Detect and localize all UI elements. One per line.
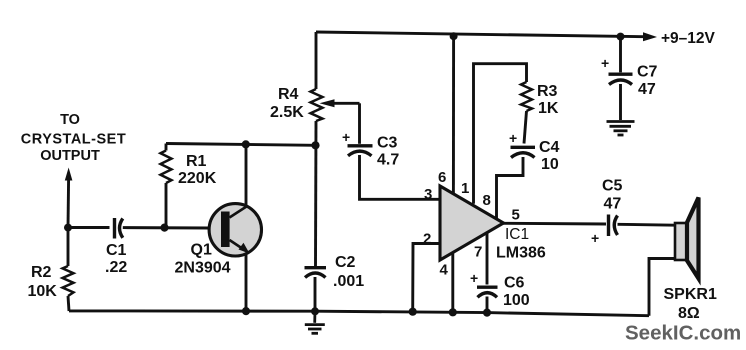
svg-text:7: 7 — [474, 244, 482, 261]
svg-text:+9–12V: +9–12V — [661, 30, 716, 47]
svg-text:5: 5 — [512, 207, 520, 224]
svg-text:4: 4 — [440, 262, 449, 279]
resistor R2 — [63, 228, 74, 312]
svg-text:+: + — [591, 230, 599, 246]
wire pin7 to C6 — [486, 233, 489, 285]
node junction C2/rail — [311, 307, 319, 315]
svg-text:10K: 10K — [28, 283, 58, 300]
resistor R3 — [521, 82, 532, 111]
wire input vertical — [67, 178, 70, 228]
svg-text:TO: TO — [60, 112, 80, 128]
capacitor C6 — [477, 287, 498, 297]
svg-text:R2: R2 — [31, 264, 52, 281]
svg-text:R1: R1 — [186, 153, 207, 170]
capacitor C7 — [609, 74, 633, 84]
wire left riser from rail to R4 — [315, 32, 318, 89]
wire R3 to C4 — [524, 111, 527, 144]
label SPKR1 value — [664, 286, 717, 322]
svg-text:C3: C3 — [377, 135, 398, 152]
label C3 value — [342, 129, 399, 169]
wire C2 to rail — [314, 277, 317, 311]
speaker SPKR1 — [649, 198, 699, 316]
node junction emitter/rail — [242, 307, 250, 315]
capacitor C1 — [115, 218, 123, 239]
label C1 value — [105, 242, 127, 276]
svg-text:10: 10 — [541, 156, 559, 173]
capacitor C5 — [609, 215, 618, 237]
ground under C2 — [305, 311, 325, 333]
wire pin1 riser and loop top — [474, 64, 527, 204]
potentiometer wiper arrow R4 — [320, 99, 360, 107]
svg-text:100: 100 — [503, 292, 530, 309]
svg-text:3: 3 — [424, 186, 432, 203]
label R3 value — [537, 83, 559, 117]
label C2 value — [333, 254, 364, 290]
label C6 value — [470, 270, 530, 309]
svg-text:8: 8 — [483, 192, 491, 209]
ground under C7 — [607, 122, 635, 136]
wire top supply rail — [316, 32, 644, 37]
label Q1 value — [175, 242, 231, 277]
svg-text:+: + — [342, 129, 350, 145]
svg-text:2N3904: 2N3904 — [175, 260, 231, 277]
svg-text:IC1: IC1 — [505, 226, 529, 243]
label IC1 LM386 — [496, 226, 546, 262]
capacitor C4 — [511, 147, 536, 157]
svg-text:2: 2 — [423, 231, 431, 248]
op-amp U1 triangle — [440, 186, 504, 260]
wire C7 to ground — [619, 84, 622, 120]
wire C3 to pin3 — [360, 155, 441, 199]
svg-text:C6: C6 — [504, 275, 525, 292]
wire output pin5 — [503, 222, 606, 226]
wire collector vertical — [245, 144, 248, 206]
capacitor C2 — [305, 268, 327, 278]
svg-text:+: + — [509, 130, 517, 146]
svg-text:SeekIC.com: SeekIC.com — [625, 322, 741, 345]
svg-text:2.5K: 2.5K — [270, 104, 304, 121]
label R4 value — [270, 86, 304, 121]
wire C4 to pin8 — [497, 157, 524, 218]
svg-text:C1: C1 — [106, 242, 127, 259]
svg-text:C4: C4 — [539, 139, 560, 156]
node junction R4/C2/collector-wire — [311, 141, 319, 149]
wire C6 to rail — [486, 297, 489, 313]
wire R4 bottom to C2 — [314, 121, 317, 266]
svg-text:C2: C2 — [335, 254, 356, 271]
wire C7 riser — [619, 37, 622, 73]
svg-text:R3: R3 — [537, 83, 558, 100]
wire emitter vertical — [245, 254, 248, 312]
svg-text:+: + — [470, 270, 478, 286]
label C5 value — [591, 178, 623, 247]
svg-text:LM386: LM386 — [496, 245, 546, 262]
svg-text:1K: 1K — [538, 100, 559, 117]
svg-text:.22: .22 — [105, 259, 127, 276]
svg-text:8Ω: 8Ω — [678, 305, 700, 322]
resistor R4 — [311, 89, 323, 121]
node input arrow — [65, 168, 73, 181]
wire pin6 riser — [452, 36, 455, 194]
node junction rail/pin6 — [450, 32, 458, 40]
label input text — [21, 112, 126, 164]
wire C5 to speaker — [618, 223, 676, 227]
node supply arrow — [643, 32, 657, 41]
wire C1 to base — [123, 226, 209, 229]
svg-text:.001: .001 — [333, 273, 364, 290]
svg-text:47: 47 — [604, 196, 622, 213]
capacitor C3 — [348, 146, 373, 156]
svg-text:R4: R4 — [278, 86, 299, 103]
resistor R1 — [161, 144, 172, 228]
node junction pin4/rail — [449, 308, 457, 316]
svg-text:Q1: Q1 — [191, 242, 212, 259]
transistor Q1 — [209, 204, 261, 256]
svg-text:C7: C7 — [637, 64, 658, 81]
node junction pin2/rail — [409, 308, 417, 316]
svg-text:C5: C5 — [602, 178, 623, 195]
svg-text:CRYSTAL-SET: CRYSTAL-SET — [21, 132, 126, 148]
node junction input/R2 — [64, 224, 72, 232]
svg-text:4.7: 4.7 — [377, 152, 399, 169]
wire wiper to C3 — [358, 103, 361, 144]
svg-text:6: 6 — [438, 169, 446, 186]
svg-text:47: 47 — [638, 81, 656, 98]
wire input to C1 — [68, 226, 110, 229]
svg-text:+: + — [601, 55, 609, 71]
node junction collector — [242, 140, 250, 148]
label R1 value — [178, 153, 217, 187]
svg-text:OUTPUT: OUTPUT — [40, 148, 100, 164]
svg-text:SPKR1: SPKR1 — [664, 286, 717, 303]
wire collector horizontal — [166, 144, 316, 146]
wire bottom ground rail — [69, 311, 649, 316]
node junction C6/rail — [483, 309, 491, 317]
label C4 value — [509, 130, 560, 173]
svg-text:1: 1 — [461, 180, 469, 197]
svg-text:220K: 220K — [178, 170, 217, 187]
node junction base/R1 — [160, 224, 168, 232]
node junction rail/C7 — [617, 33, 625, 41]
label R2 value — [28, 264, 58, 300]
wire pin4 — [451, 253, 454, 313]
wire pin2 to rail — [413, 244, 439, 312]
label C7 value — [601, 55, 658, 98]
